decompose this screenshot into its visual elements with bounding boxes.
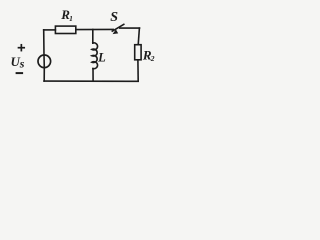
minus sign of source — [17, 72, 23, 74]
wire: R1 to switch (with junction at middle branch) — [76, 28, 113, 30]
svg-text:R2: R2 — [142, 48, 155, 64]
wire: left vertical branch through source — [43, 30, 46, 81]
resistor R2 — [135, 45, 141, 60]
svg-text:L: L — [97, 50, 106, 64]
wire: bottom of L branch — [92, 69, 94, 82]
switch S arrowhead — [113, 29, 119, 34]
switch S blade — [112, 24, 124, 31]
svg-text:R1: R1 — [60, 7, 73, 23]
wire: right vertical lower (R2 to bottom corner) — [137, 60, 139, 81]
resistor R1 — [55, 26, 75, 33]
node: top junction of L branch — [92, 30, 94, 44]
voltage source U_S circle — [38, 55, 51, 68]
plus sign of source — [19, 45, 25, 51]
inductor L coil — [92, 43, 98, 69]
wire: right vertical upper (corner to R2) — [138, 28, 139, 45]
svg-text:Us: Us — [11, 54, 25, 70]
wire: switch to top-right corner — [120, 27, 140, 29]
wire: top left segment (corner to R1) — [44, 29, 56, 31]
svg-text:S: S — [110, 10, 118, 25]
wire: bottom horizontal — [44, 80, 138, 82]
